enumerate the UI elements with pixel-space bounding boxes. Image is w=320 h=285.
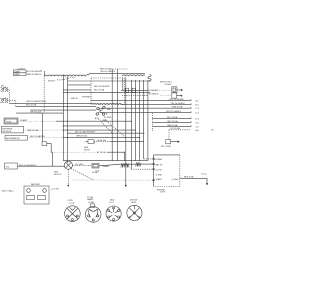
harness scallop right bbox=[122, 75, 145, 76]
svg-text:18 GA: 18 GA bbox=[92, 171, 98, 174]
battery cell 2 bbox=[38, 196, 46, 200]
svg-text:LAMP: LAMP bbox=[14, 73, 20, 76]
ground dotted run bbox=[72, 179, 153, 181]
engine feed wire 1 bbox=[144, 158, 153, 160]
svg-text:18 GA BLK: 18 GA BLK bbox=[149, 93, 160, 96]
harness scallop left bbox=[45, 73, 91, 76]
alternator box B3 bbox=[5, 136, 28, 141]
battery box bbox=[24, 186, 49, 204]
svg-text:FUSE: FUSE bbox=[6, 121, 12, 123]
left switch S2 bbox=[2, 100, 4, 102]
fuse F1 bbox=[172, 87, 177, 93]
svg-text:IGN SW: IGN SW bbox=[130, 199, 138, 201]
wire W2 bbox=[24, 129, 64, 131]
engine terminal pins bbox=[153, 158, 155, 160]
C0 to fuse wire bbox=[72, 164, 92, 166]
fuse row1 plug B bbox=[132, 88, 136, 92]
S1 wire bbox=[8, 90, 10, 104]
wire L3 bbox=[99, 107, 191, 108]
svg-text:NO CONN.: NO CONN. bbox=[161, 146, 172, 148]
feed wire upper bbox=[68, 80, 150, 82]
harness coil bbox=[148, 75, 151, 82]
svg-text:BRN 18 GA BLK: BRN 18 GA BLK bbox=[27, 73, 42, 76]
svg-text:TAN 18 GA: TAN 18 GA bbox=[167, 124, 178, 127]
key switch circle C0 bbox=[64, 161, 72, 169]
harness coil A bbox=[121, 164, 129, 168]
svg-text:BATTERY: BATTERY bbox=[31, 183, 41, 186]
fuse row1 plug A bbox=[125, 88, 129, 92]
connector drop wire bbox=[47, 144, 53, 167]
L5-L7 feeder dashed bbox=[152, 113, 154, 131]
wire L8 dashed bbox=[169, 129, 191, 131]
svg-text:HARN.: HARN. bbox=[87, 198, 94, 201]
svg-text:BLK 16 GA ORG/WHT: BLK 16 GA ORG/WHT bbox=[75, 131, 96, 134]
bus vertical V2b bbox=[111, 69, 113, 161]
fuse row 1 wire bbox=[121, 89, 148, 91]
svg-text:GRN 16 GA WHT/BLK: GRN 16 GA WHT/BLK bbox=[26, 100, 47, 103]
third wire bbox=[16, 112, 63, 114]
ignition switch cluster bbox=[97, 107, 99, 109]
bus vertical V4 bbox=[125, 78, 127, 187]
drop V12 bbox=[123, 152, 125, 161]
svg-text:SLO-BLO: SLO-BLO bbox=[75, 164, 84, 166]
bus vertical V7 bbox=[139, 80, 141, 161]
wire W1 bbox=[18, 120, 56, 122]
fuse box B1 bbox=[4, 118, 18, 124]
inline fuse F3 bbox=[92, 163, 99, 168]
svg-text:S GND: S GND bbox=[156, 174, 163, 176]
svg-text:(+) 7 GA: (+) 7 GA bbox=[51, 188, 59, 191]
svg-text:GRN 16 GA: GRN 16 GA bbox=[172, 106, 183, 109]
battery terminal neg bbox=[27, 189, 31, 193]
B4 wire bbox=[18, 165, 65, 167]
wire L7 bbox=[153, 125, 192, 126]
S2 wire bbox=[7, 100, 16, 106]
bus vertical V9 bbox=[147, 80, 149, 161]
svg-text:VIO 18 GA: VIO 18 GA bbox=[170, 127, 180, 130]
battery cell 1 bbox=[27, 196, 35, 200]
harness wire W1b bbox=[63, 125, 112, 127]
svg-text:MAG: MAG bbox=[102, 119, 107, 122]
wire W3 bbox=[68, 132, 144, 134]
svg-text:GRN 16: GRN 16 bbox=[71, 98, 79, 100]
top stub wire bbox=[111, 68, 128, 70]
wire drop from lamp labels bbox=[44, 71, 46, 76]
svg-text:NOTE: NOTE bbox=[84, 149, 90, 151]
note squiggle bbox=[57, 77, 75, 80]
wire L2 bbox=[96, 103, 191, 104]
switch wire W-B bbox=[16, 106, 96, 108]
svg-text:B MAG: B MAG bbox=[156, 158, 163, 161]
diode D1 bbox=[166, 140, 171, 144]
bus vertical V2 bbox=[67, 76, 69, 163]
interlock module B2 bbox=[2, 126, 24, 133]
engine feed wire 3 bbox=[131, 168, 153, 170]
bus vertical V8 bbox=[143, 80, 145, 159]
svg-text:NOTE 3: NOTE 3 bbox=[54, 174, 62, 176]
ignition diagonal 1 bbox=[99, 119, 113, 133]
svg-text:YEL 16 GA BLK: YEL 16 GA BLK bbox=[171, 102, 186, 105]
harness coil B bbox=[136, 163, 141, 167]
svg-text:NOTE 2: NOTE 2 bbox=[48, 81, 56, 83]
lamp drop dashed continuation bbox=[43, 76, 45, 113]
ignition diagonal 2 bbox=[105, 120, 125, 137]
battery terminal pos bbox=[43, 189, 47, 193]
drop to connector bbox=[42, 113, 44, 142]
svg-text:(-) GND: (-) GND bbox=[172, 179, 179, 181]
svg-text:RED 10 GA SEE N.: RED 10 GA SEE N. bbox=[19, 164, 37, 167]
bus vertical V3 bbox=[122, 78, 124, 91]
headlamp L1 box bbox=[13, 70, 26, 73]
svg-text:WHT 16 GA BLK: WHT 16 GA BLK bbox=[166, 110, 182, 113]
svg-text:ORG 16 GA BLK: ORG 16 GA BLK bbox=[100, 70, 116, 73]
svg-text:BLK 6 GA (-): BLK 6 GA (-) bbox=[2, 190, 14, 193]
bus vertical V1 bbox=[62, 75, 64, 161]
svg-text:4 PIN: 4 PIN bbox=[68, 200, 73, 202]
wire L4 bbox=[100, 111, 191, 112]
engine plus wire bbox=[180, 178, 208, 185]
bus vertical V2c bbox=[116, 69, 118, 161]
wire W5 diode bbox=[86, 141, 89, 143]
switch wire W-C bbox=[30, 109, 96, 111]
F3 to engine wire bbox=[99, 164, 153, 166]
bus vertical V5 bbox=[130, 80, 132, 161]
console dashed box bbox=[91, 78, 125, 105]
svg-text:AT 18 GA: AT 18 GA bbox=[97, 151, 106, 154]
inline connector K1 bbox=[42, 142, 47, 146]
svg-text:WHT/BLK: WHT/BLK bbox=[82, 97, 92, 99]
svg-text:TO (+): TO (+) bbox=[201, 174, 207, 176]
fuse row 2 wire bbox=[122, 95, 148, 97]
svg-text:1A 18 GA: 1A 18 GA bbox=[97, 139, 106, 142]
fuse F1 arrow bbox=[176, 89, 182, 91]
feed stub mid1 bbox=[68, 84, 91, 86]
svg-text:ORG 16 GA RED: ORG 16 GA RED bbox=[169, 98, 185, 101]
battery cable box B4 bbox=[5, 163, 18, 169]
svg-text:FUSES: FUSES bbox=[165, 84, 172, 86]
svg-text:(TYP): (TYP) bbox=[160, 192, 166, 194]
svg-text:BLK 16 GA: BLK 16 GA bbox=[94, 88, 105, 91]
wire L6 bbox=[153, 121, 192, 122]
wire L5 bbox=[153, 117, 192, 118]
svg-text:CC-A: CC-A bbox=[69, 202, 75, 205]
svg-text:GRN 18 GA: GRN 18 GA bbox=[76, 135, 87, 138]
wire W6 bbox=[107, 151, 124, 153]
svg-text:ST GND: ST GND bbox=[104, 117, 112, 119]
svg-text:RED 16 GA: RED 16 GA bbox=[100, 68, 111, 71]
svg-text:BAT 18: BAT 18 bbox=[156, 164, 163, 167]
svg-text:BLU 18 GA: BLU 18 GA bbox=[167, 116, 178, 119]
fuse F2 bbox=[172, 93, 177, 98]
wire W6 dotted bbox=[52, 151, 95, 153]
harness top line bbox=[90, 72, 145, 74]
svg-text:RED 18 GA WHT: RED 18 GA WHT bbox=[94, 85, 110, 88]
svg-text:START: START bbox=[156, 178, 163, 181]
C0 ground stem bbox=[67, 169, 69, 186]
svg-text:CC-C: CC-C bbox=[109, 202, 115, 204]
svg-text:MODULE: MODULE bbox=[3, 131, 12, 133]
fuse F2 arrow bbox=[176, 95, 182, 97]
bus vertical V6 bbox=[134, 80, 136, 161]
svg-text:GRY 18 GA: GRY 18 GA bbox=[167, 120, 178, 123]
feed wire lower bbox=[63, 92, 150, 94]
svg-text:ALTERNATOR: ALTERNATOR bbox=[6, 137, 20, 140]
svg-text:RED 6 GA: RED 6 GA bbox=[184, 176, 194, 179]
svg-text:RED 16 GA: RED 16 GA bbox=[28, 129, 39, 132]
svg-text:18 GA RED: 18 GA RED bbox=[148, 89, 159, 92]
svg-text:BLK 16 GA: BLK 16 GA bbox=[26, 104, 37, 107]
circle drop diagonal bbox=[71, 169, 94, 180]
diode wire arrow bbox=[171, 141, 180, 143]
headlamp L2 box bbox=[13, 73, 26, 76]
engine box bbox=[154, 155, 180, 187]
wire L1 bbox=[91, 99, 191, 100]
svg-text:CONN: CONN bbox=[88, 202, 95, 204]
bottom harness wire bbox=[63, 160, 148, 162]
wire W4 bbox=[28, 136, 64, 138]
switch wire W-A bbox=[9, 103, 96, 105]
L8 drop to diode bbox=[168, 130, 170, 140]
svg-text:(+) PW: (+) PW bbox=[156, 169, 163, 171]
wire W5 bbox=[94, 141, 110, 143]
svg-text:REVERSE: REVERSE bbox=[3, 128, 13, 130]
feed stub mid2 bbox=[63, 89, 91, 91]
